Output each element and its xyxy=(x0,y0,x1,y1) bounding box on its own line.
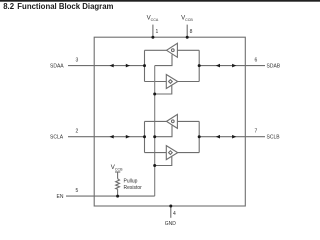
svg-text:VCCA: VCCA xyxy=(147,15,159,22)
svg-text:4: 4 xyxy=(173,211,176,217)
wire upper-cell top buffer input xyxy=(177,49,199,51)
svg-text:8: 8 xyxy=(190,29,193,35)
svg-text:Resistor: Resistor xyxy=(124,185,143,191)
wire SDAB from junction to pin 6 xyxy=(199,65,265,67)
node SCL-B junction xyxy=(198,135,201,138)
op-amp U2 buffer A-to-B (upper cell, points right) xyxy=(166,75,177,89)
arrow right SCLB xyxy=(232,135,236,139)
svg-text:3: 3 xyxy=(76,58,79,64)
node EN tap U2 xyxy=(153,93,156,96)
svg-text:SDAA: SDAA xyxy=(50,64,64,70)
svg-text:SCLA: SCLA xyxy=(50,135,64,141)
wire EN net vertical xyxy=(154,66,156,197)
pin 8 VCCB stub xyxy=(186,25,188,38)
node EN tap U4 xyxy=(153,164,156,167)
svg-text:VCCB: VCCB xyxy=(111,164,123,171)
svg-text:Pullup: Pullup xyxy=(124,178,138,184)
svg-text:1: 1 xyxy=(156,29,159,35)
svg-text:VCCB: VCCB xyxy=(181,15,193,22)
arrow left SCLA xyxy=(110,135,114,139)
junction dots xyxy=(116,36,201,208)
svg-text:2: 2 xyxy=(76,129,79,135)
node EN tap U3 xyxy=(153,135,156,138)
device outline box xyxy=(94,37,245,206)
node SDA-B junction xyxy=(198,64,201,67)
svg-text:GND: GND xyxy=(165,221,177,227)
wire lower-cell bottom buffer input xyxy=(145,152,167,154)
op-amp U1 buffer B-to-A (upper cell, points left) xyxy=(167,43,178,57)
node SCL-A junction xyxy=(143,135,146,138)
op-amp U3 buffer B-to-A (lower cell, points left) xyxy=(167,114,178,128)
arrow right SDAB xyxy=(232,64,236,68)
svg-text:5: 5 xyxy=(76,188,79,194)
node resistor-EN junction xyxy=(116,195,119,198)
wire upper-cell right vertical xyxy=(198,50,200,81)
wire SCLA from pin 2 to junction xyxy=(68,136,145,138)
wire EN jog to U3 enable xyxy=(155,126,172,137)
wire EN jog to U4 enable xyxy=(155,157,172,166)
wire upper-cell bottom buffer output xyxy=(178,81,200,83)
arrow left SCLB xyxy=(216,135,220,139)
wire GND stub xyxy=(170,206,172,218)
svg-text:EN: EN xyxy=(57,194,64,200)
op-amp U4 buffer A-to-B (lower cell, points right) xyxy=(166,146,177,160)
wire lower-cell top buffer input xyxy=(177,120,199,122)
wire lower-cell bottom buffer output xyxy=(178,152,200,154)
wire upper-cell bottom buffer input xyxy=(145,81,167,83)
top rule xyxy=(0,0,320,2)
wire resistor bottom lead xyxy=(117,189,119,196)
node GND on box xyxy=(169,205,172,208)
arrow right SCLA xyxy=(126,135,130,139)
resistor R1 zigzag xyxy=(116,179,120,190)
wire EN jog to U2 enable xyxy=(155,86,172,95)
arrow left SDAB xyxy=(216,64,220,68)
svg-text:7: 7 xyxy=(255,129,258,135)
node SDA-A junction xyxy=(143,64,146,67)
direction arrows xyxy=(110,64,237,139)
wire lower-cell left vertical xyxy=(144,121,146,152)
svg-text:SDAB: SDAB xyxy=(267,64,281,70)
wire EN jog to U1 enable xyxy=(155,54,172,65)
pullup resistor R1 top bar xyxy=(115,171,120,173)
wire SCLB from junction to pin 7 xyxy=(199,136,265,138)
node pin8 on box xyxy=(186,36,189,39)
node pin1 on box xyxy=(151,36,154,39)
svg-text:Functional Block Diagram: Functional Block Diagram xyxy=(17,2,113,11)
pin 1 VCCA stub xyxy=(152,25,154,38)
svg-text:6: 6 xyxy=(255,58,258,64)
svg-text:8.2: 8.2 xyxy=(3,2,15,11)
wire lower-cell top (B to A buffer output) xyxy=(145,120,167,122)
wire SDAA from pin 3 to junction xyxy=(68,65,145,67)
arrow left SDAA xyxy=(110,64,114,68)
wire resistor top lead xyxy=(117,172,119,179)
wire EN from pin 5 xyxy=(66,195,155,197)
arrow right SDAA xyxy=(126,64,130,68)
wire lower-cell right vertical xyxy=(198,121,200,152)
svg-text:SCLB: SCLB xyxy=(267,135,281,141)
wire upper-cell left vertical xyxy=(144,50,146,81)
wire upper-cell top (B to A buffer output) xyxy=(145,49,167,51)
